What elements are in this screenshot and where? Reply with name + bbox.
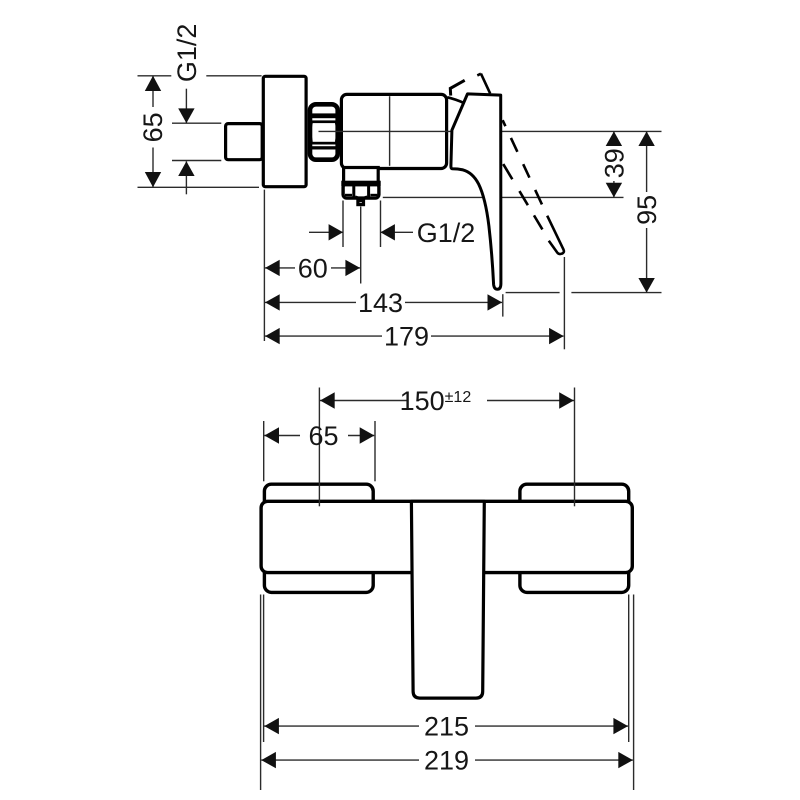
bottom view dimension texts	[308, 386, 471, 776]
svg-text:G1/2: G1/2	[417, 218, 476, 248]
dim 179 line	[265, 335, 382, 337]
handle lever tail (closed position)	[450, 80, 464, 95]
svg-text:65: 65	[138, 112, 168, 142]
handle cap + lever (solid position)	[451, 94, 501, 289]
39 arrows	[606, 131, 622, 146]
extension line solid handle tip (143 dim)	[502, 294, 504, 316]
outlet hose nut	[343, 184, 379, 198]
svg-text:143: 143	[358, 288, 403, 318]
G thread arrows (outside, pointing in)	[178, 108, 194, 123]
143 arrows	[265, 294, 280, 310]
extension line outlet bottom (39 dim)	[383, 196, 624, 198]
svg-text:179: 179	[384, 322, 429, 352]
dashed lever tip cap	[547, 216, 564, 254]
150 arrows	[320, 392, 335, 408]
outlet nipple nib	[358, 201, 364, 205]
hex nut bottom chamfer band	[308, 142, 339, 145]
front handle	[411, 501, 484, 698]
svg-text:65: 65	[308, 421, 338, 451]
hex nut barrel curves	[310, 123, 311, 142]
60 arrows	[265, 260, 280, 276]
extension line handle tip bottom (95 dim)	[506, 292, 560, 294]
dim 143 line	[265, 301, 356, 303]
bottom view thin lines	[261, 388, 634, 791]
G1/2 outlet arrows pointing in	[329, 224, 343, 240]
dashed lever back edge	[481, 74, 547, 216]
179 arrows	[265, 328, 280, 344]
dim 215 line	[264, 725, 419, 727]
ext lines 215 / 219 dims	[260, 595, 262, 791]
dim 150 line	[320, 400, 407, 402]
ext lines 65 dim	[263, 421, 265, 481]
outlet stub below body	[344, 168, 379, 184]
65 up / down	[145, 76, 161, 91]
wall union square G1/2 connector	[226, 124, 263, 160]
dashed lever front edge	[502, 162, 542, 229]
dim 60 line	[265, 267, 295, 269]
dim 219 line	[261, 759, 419, 761]
right wall escutcheon	[520, 484, 629, 592]
top view dimension texts	[138, 24, 662, 352]
hex nut (side view)	[310, 104, 338, 159]
extension line outlet center (60 dim)	[360, 207, 362, 284]
svg-text:39: 39	[599, 148, 629, 178]
svg-text:95: 95	[632, 195, 662, 225]
extension line outlet left (G1/2 dim)	[342, 201, 344, 248]
extension line outlet right (G1/2 dim)	[380, 201, 382, 248]
dim 39 line	[613, 131, 615, 146]
dim 65 line	[152, 76, 154, 107]
cartridge dome curve	[447, 97, 463, 103]
svg-text:215: 215	[424, 712, 469, 742]
dim 95 line	[646, 131, 648, 192]
ext lines 150 dim (mount centers)	[318, 388, 320, 507]
svg-text:219: 219	[424, 746, 469, 776]
body centerline axis	[319, 130, 662, 132]
hex nut top chamfer band	[308, 113, 339, 118]
wall flange plate	[263, 76, 306, 186]
extension line dashed handle tip (179 dim)	[563, 257, 565, 349]
dim G thread line	[185, 89, 187, 123]
extension line wall face (60/143/179 dims)	[263, 190, 265, 341]
dashed handle tail (open position)	[477, 74, 481, 76]
95 arrows	[638, 131, 654, 146]
svg-text:60: 60	[298, 253, 328, 283]
219 arrows	[261, 752, 276, 768]
mixer body	[341, 94, 446, 168]
dim G1/2 outlet leader	[309, 231, 343, 233]
body vertical parting line	[389, 96, 391, 166]
215 arrows	[264, 718, 279, 734]
dim 65 line	[264, 435, 300, 437]
65 arrows	[264, 427, 279, 443]
arrows top view	[145, 76, 655, 345]
body bar	[261, 501, 632, 572]
left wall escutcheon	[264, 484, 373, 592]
ext lines 65 dim	[138, 75, 172, 77]
ext lines G thread dim	[172, 122, 221, 124]
svg-text:G1/2: G1/2	[172, 24, 202, 83]
bottom view arrows	[261, 392, 633, 768]
